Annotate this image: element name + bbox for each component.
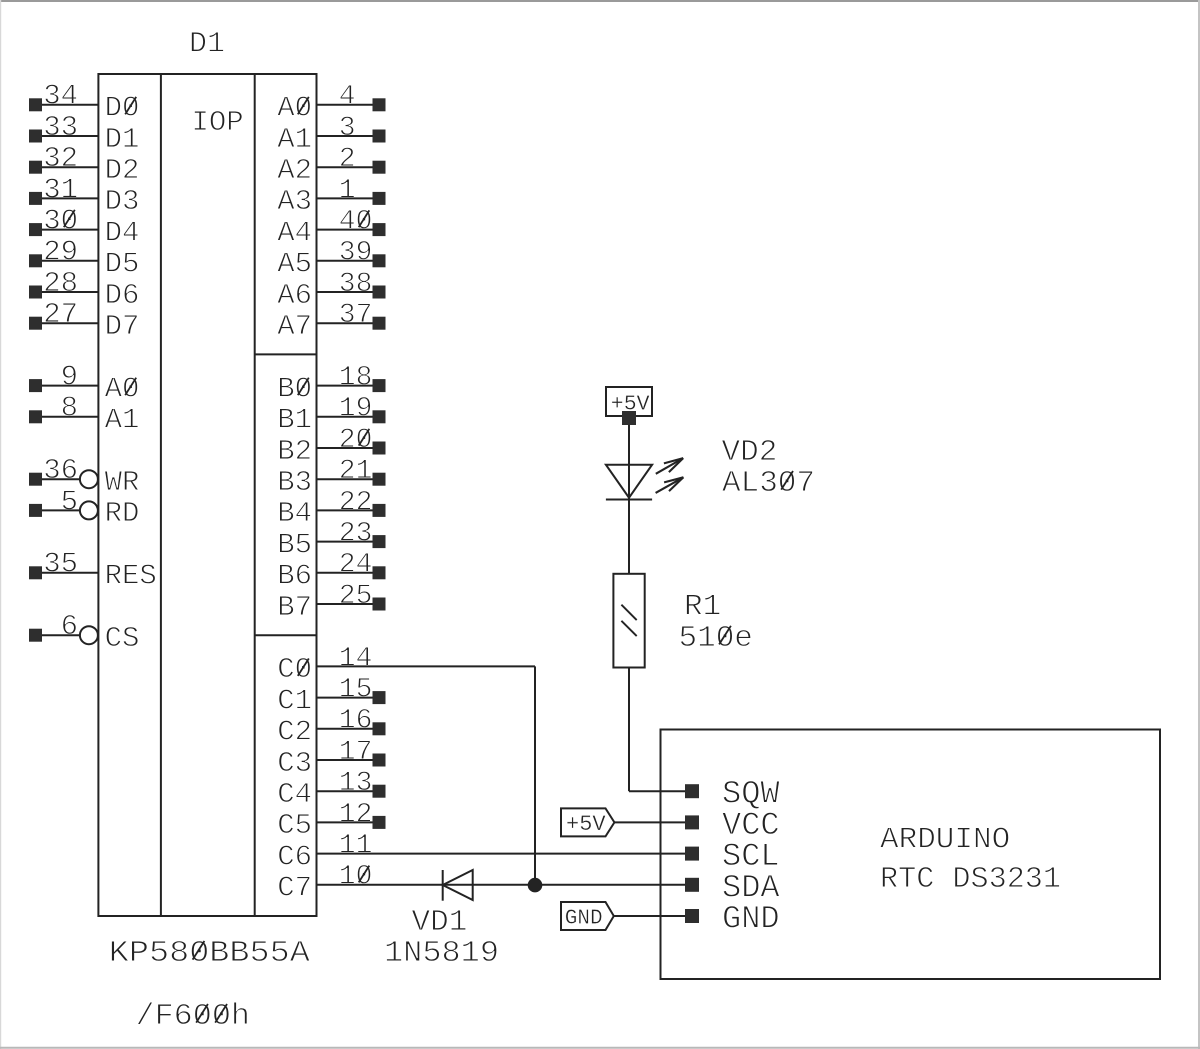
svg-text:17: 17 [339,737,373,768]
svg-text:B0: B0 [277,372,312,405]
svg-text:A7: A7 [277,310,312,343]
svg-text:20: 20 [339,425,373,456]
svg-text:RTC DS3231: RTC DS3231 [880,862,1061,897]
svg-text:C4: C4 [277,778,312,811]
svg-text:D5: D5 [105,248,140,281]
svg-text:GND: GND [722,901,780,938]
svg-text:13: 13 [339,768,373,799]
svg-text:KP580BB55A: KP580BB55A [109,936,310,971]
svg-text:12: 12 [339,799,373,830]
svg-text:IOP: IOP [192,106,244,139]
svg-text:D1: D1 [105,123,140,156]
svg-text:11: 11 [339,831,373,862]
svg-text:38: 38 [339,269,373,300]
svg-text:B6: B6 [277,560,312,593]
svg-text:D1: D1 [189,28,225,62]
svg-text:D4: D4 [105,216,140,249]
svg-text:14: 14 [339,643,373,674]
svg-text:AL307: AL307 [722,466,815,501]
svg-text:2: 2 [339,144,356,175]
svg-text:A0: A0 [105,372,140,405]
svg-text:27: 27 [43,298,78,331]
svg-text:8: 8 [61,392,78,425]
svg-text:A1: A1 [277,123,312,156]
svg-text:1: 1 [339,175,356,206]
svg-text:A3: A3 [277,185,312,218]
svg-text:37: 37 [339,300,373,331]
svg-text:4: 4 [339,82,356,113]
svg-text:D2: D2 [105,154,140,187]
svg-text:ARDUINO: ARDUINO [880,823,1010,858]
svg-text:RD: RD [105,497,140,530]
svg-text:40: 40 [339,207,373,238]
svg-text:A0: A0 [277,92,312,125]
svg-text:C3: C3 [277,747,312,780]
svg-text:R1: R1 [684,589,721,624]
svg-text:35: 35 [43,548,78,581]
svg-text:CS: CS [105,622,140,655]
svg-text:1N5819: 1N5819 [384,936,499,971]
svg-text:/F600h: /F600h [136,999,251,1034]
svg-text:A6: A6 [277,279,312,312]
svg-text:D0: D0 [105,92,140,125]
svg-text:6: 6 [61,610,78,643]
svg-text:VD1: VD1 [412,905,468,940]
svg-text:21: 21 [339,456,373,487]
svg-text:GND: GND [565,908,603,931]
svg-text:C2: C2 [277,716,312,749]
svg-text:10: 10 [339,862,373,893]
svg-text:C0: C0 [277,653,312,686]
svg-text:D6: D6 [105,279,140,312]
svg-text:C6: C6 [277,840,312,873]
svg-text:A2: A2 [277,154,312,187]
svg-text:RES: RES [105,560,157,593]
svg-text:C7: C7 [277,872,312,905]
svg-text:31: 31 [43,173,78,206]
svg-text:D7: D7 [105,310,140,343]
svg-text:C5: C5 [277,809,312,842]
svg-text:510e: 510e [679,621,753,656]
svg-text:B7: B7 [277,591,312,624]
svg-text:28: 28 [43,267,78,300]
svg-text:19: 19 [339,394,373,425]
svg-text:9: 9 [61,361,78,394]
svg-text:3: 3 [339,113,356,144]
svg-text:VD2: VD2 [722,435,778,470]
svg-text:25: 25 [339,581,373,612]
svg-text:B1: B1 [277,404,312,437]
svg-text:32: 32 [43,142,78,175]
svg-text:30: 30 [43,205,78,238]
svg-text:A5: A5 [277,248,312,281]
svg-text:39: 39 [339,238,373,269]
svg-text:B5: B5 [277,528,312,561]
svg-text:18: 18 [339,363,373,394]
svg-text:B4: B4 [277,497,312,530]
svg-text:36: 36 [43,454,78,487]
svg-text:29: 29 [43,236,78,269]
svg-text:5: 5 [61,485,78,518]
svg-text:23: 23 [339,519,373,550]
svg-text:15: 15 [339,675,373,706]
svg-text:A1: A1 [105,404,140,437]
svg-text:24: 24 [339,550,373,581]
svg-text:22: 22 [339,487,373,518]
svg-text:16: 16 [339,706,373,737]
svg-text:A4: A4 [277,216,312,249]
svg-text:D3: D3 [105,185,140,218]
svg-text:33: 33 [43,111,78,144]
svg-text:WR: WR [105,466,140,499]
svg-text:34: 34 [43,80,78,113]
svg-text:+5V: +5V [566,812,606,837]
svg-text:B3: B3 [277,466,312,499]
svg-text:B2: B2 [277,435,312,468]
svg-text:C1: C1 [277,684,312,717]
